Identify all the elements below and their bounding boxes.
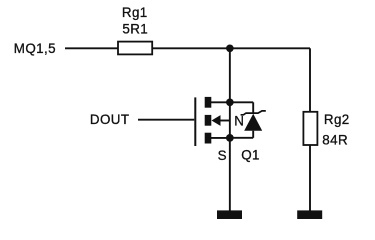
label N (body diode) (234, 114, 244, 129)
wire junction to right corner (230, 47, 310, 49)
svg-text:DOUT: DOUT (90, 112, 130, 127)
svg-text:Rg1: Rg1 (122, 5, 148, 20)
wire Rg1 to junction (152, 47, 230, 49)
transistor Q1 drain channel bar (205, 97, 212, 108)
junction dot source (226, 134, 234, 142)
junction dot top (226, 44, 234, 52)
svg-text:MQ1,5: MQ1,5 (14, 41, 56, 56)
wire MQ1,5 to Rg1 (65, 47, 119, 49)
label Rg2 (324, 112, 350, 127)
value 5R1 (122, 22, 148, 37)
wire right branch vertical bottom (309, 145, 311, 211)
wire source stub (211, 137, 230, 139)
svg-text:S: S (218, 148, 227, 163)
svg-text:N: N (234, 114, 244, 129)
wire body stub (220, 120, 230, 122)
label S (source pin) (218, 148, 227, 163)
body diode D cathode (zener bent bar) (241, 111, 266, 115)
wire drain vertical (229, 48, 231, 102)
svg-text:84R: 84R (322, 132, 348, 147)
ground left (217, 210, 242, 219)
transistor Q1 body channel bar (205, 115, 212, 126)
wire drain dot to source dot (229, 102, 231, 138)
wire DOUT to gate (138, 119, 194, 121)
wire right branch vertical top (309, 48, 311, 112)
label Q1 (241, 148, 260, 163)
ground right (297, 210, 322, 219)
value 84R (322, 132, 348, 147)
wire diode bottom (230, 131, 253, 138)
transistor Q1 body arrow (212, 115, 221, 126)
svg-text:Q1: Q1 (241, 148, 260, 163)
transistor Q1 source channel bar (205, 133, 212, 144)
node MQ1,5 label (14, 41, 56, 56)
junction dot drain (226, 98, 234, 106)
label DOUT (90, 112, 130, 127)
resistor Rg1 (118, 42, 152, 55)
svg-text:5R1: 5R1 (122, 22, 148, 37)
transistor Q1 gate bar (194, 97, 196, 146)
svg-text:Rg2: Rg2 (324, 112, 350, 127)
wire source to ground (229, 138, 231, 211)
body diode D anode triangle (244, 114, 262, 131)
label Rg1 (122, 5, 148, 20)
wire diode top (230, 102, 253, 113)
resistor Rg2 (303, 112, 317, 145)
wire drain stub (211, 101, 230, 103)
